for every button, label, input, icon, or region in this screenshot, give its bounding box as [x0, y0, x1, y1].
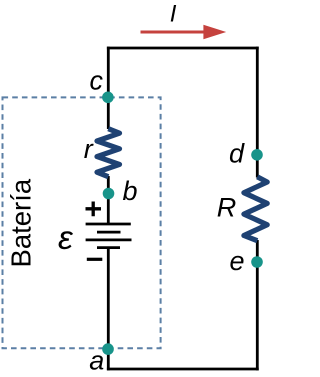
battery plate long 3 — [86, 239, 132, 242]
node a — [102, 343, 114, 355]
svg-text:ε: ε — [58, 220, 74, 257]
bottom wire — [107, 368, 259, 371]
resistor r — [97, 129, 120, 177]
svg-text:b: b — [123, 176, 138, 206]
wire left lower (battery to a) — [107, 248, 110, 371]
wire left upper (c to r) — [107, 47, 110, 129]
node b — [103, 188, 115, 200]
svg-text:r: r — [84, 134, 94, 164]
svg-text:c: c — [90, 66, 104, 96]
svg-text:e: e — [230, 246, 245, 276]
battery dashed box — [3, 97, 161, 348]
svg-text:d: d — [229, 139, 245, 169]
node d — [251, 149, 263, 161]
battery plate long top — [86, 223, 131, 226]
wire right lower (R to bottom) — [256, 240, 259, 370]
svg-text:I: I — [170, 1, 177, 28]
wire right upper (top to R) — [256, 47, 259, 178]
wire left mid (r to battery) — [107, 176, 110, 224]
svg-text:R: R — [217, 192, 237, 222]
minus sign — [87, 258, 103, 261]
node c — [102, 92, 114, 104]
battery plate short 4 — [97, 248, 120, 249]
node e — [251, 256, 263, 268]
top wire — [107, 47, 259, 50]
svg-text:Batería: Batería — [6, 178, 37, 267]
resistor R — [244, 177, 267, 241]
current arrow — [141, 31, 207, 34]
svg-text:a: a — [89, 346, 104, 376]
battery plate short 2 — [97, 231, 121, 234]
plus sign — [86, 202, 102, 217]
